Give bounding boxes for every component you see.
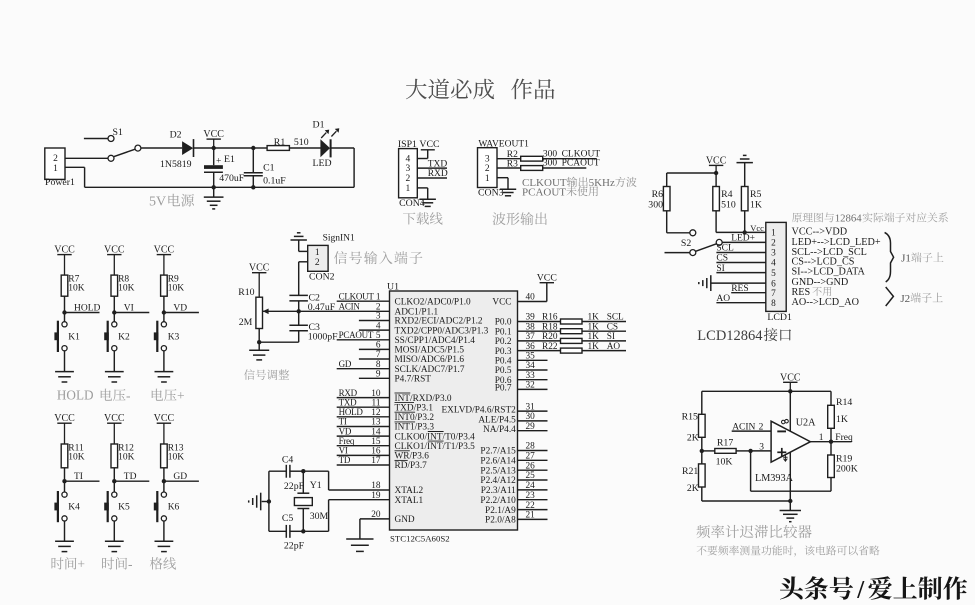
U1 pin 1 name CLKO2/ADC0/P1.0 bbox=[395, 297, 472, 307]
svg-text:5: 5 bbox=[376, 331, 381, 341]
U1 pin 3 name RXD2/ECI/ADC2/P1.2 bbox=[395, 317, 483, 327]
U1 pin 31 stub wire bbox=[518, 402, 548, 412]
ground K1 bbox=[55, 371, 74, 373]
U1 pin 37 wire to R20 bbox=[518, 332, 561, 342]
power VCC at LCD bbox=[706, 155, 727, 173]
net label TD at U1 pin 17 bbox=[339, 455, 351, 465]
svg-text:VCC: VCC bbox=[419, 139, 439, 150]
wire R9 to node VD bbox=[163, 296, 165, 312]
wire crystal left rail bbox=[268, 471, 270, 531]
svg-text:10K: 10K bbox=[68, 452, 85, 462]
junction op-amp plus input node bbox=[748, 449, 752, 453]
svg-text:SCL: SCL bbox=[716, 244, 734, 254]
U1 pin 35 name P0.4 bbox=[495, 357, 512, 367]
net label PCAOUT at U1 pin 5 bbox=[339, 330, 374, 340]
wire ISP1 pin1 to ground bbox=[417, 188, 427, 199]
resistor R11 10K bbox=[61, 443, 85, 468]
junction XTAL1 node bbox=[301, 529, 305, 533]
svg-text:23: 23 bbox=[526, 491, 536, 501]
U1 pin 24 name P2.3/A11 bbox=[481, 486, 516, 496]
svg-text:AO-->LCD_AO: AO-->LCD_AO bbox=[792, 297, 859, 308]
U1 pin 23 name P2.2/A10 bbox=[480, 496, 516, 506]
wire WAVEOUT1 pin1 to ground bbox=[497, 178, 508, 190]
svg-text:1: 1 bbox=[376, 292, 381, 302]
wire node to switch K4 bbox=[64, 481, 66, 492]
svg-text:CLKOUT: CLKOUT bbox=[339, 291, 375, 301]
svg-text:GD: GD bbox=[339, 359, 352, 369]
net label Freq at U1 pin 15 bbox=[339, 436, 355, 446]
svg-text:P2.6/A14: P2.6/A14 bbox=[480, 457, 516, 467]
label J1端子上 bbox=[901, 252, 943, 264]
U1 left pin 17 wire bbox=[337, 456, 390, 466]
svg-text:1000pF: 1000pF bbox=[308, 331, 338, 342]
U1 pin 4 name TXD2/CPP0/ADC3/P1.3 bbox=[395, 326, 489, 336]
ground K4 bbox=[55, 540, 74, 542]
resistor R5 1K bbox=[741, 187, 762, 211]
net label GD at U1 pin 8 bbox=[339, 359, 352, 369]
wire R2 to CLKOUT net bbox=[543, 149, 601, 159]
svg-text:TI: TI bbox=[339, 417, 347, 427]
wire S2 to LCD pin2 LED+ bbox=[722, 234, 766, 244]
junction R5 bottom bbox=[743, 230, 747, 234]
svg-text:4: 4 bbox=[771, 259, 776, 269]
power VCC at U1 pin40 bbox=[537, 273, 557, 284]
net label SCL to LCD pin3 bbox=[716, 244, 765, 254]
junction LCD VCC node bbox=[714, 171, 718, 175]
U1 pin 27 name P2.6/A14 bbox=[480, 457, 516, 467]
label 时间- bbox=[102, 557, 133, 572]
wire power bottom rail bbox=[85, 186, 355, 188]
svg-text:1K: 1K bbox=[588, 332, 600, 342]
svg-text:15: 15 bbox=[371, 437, 381, 447]
svg-text:MOSI/ADC5/P1.5: MOSI/ADC5/P1.5 bbox=[395, 346, 465, 356]
resistor R19 200K bbox=[828, 442, 858, 492]
svg-text:R22: R22 bbox=[542, 342, 558, 352]
op-amp U2A LM393A bbox=[755, 417, 816, 484]
U1 pin 36 wire to R22 bbox=[518, 342, 561, 352]
svg-text:2: 2 bbox=[53, 154, 58, 164]
svg-text:5KHz: 5KHz bbox=[589, 177, 615, 189]
power VCC at comparator bbox=[780, 372, 801, 391]
connector LCD1 bbox=[766, 222, 792, 323]
wire C1 node to R1 bbox=[253, 147, 267, 149]
U1 pin 17 name RD/P3.7 bbox=[395, 460, 428, 471]
svg-text:14: 14 bbox=[371, 427, 381, 437]
svg-text:XTAL1: XTAL1 bbox=[395, 496, 424, 506]
junction XTAL2 node bbox=[301, 469, 305, 473]
U1 pin 36 name P0.3 bbox=[495, 347, 512, 357]
svg-text:10K: 10K bbox=[716, 457, 733, 468]
net label TXD at U1 pin 11 bbox=[339, 397, 357, 407]
junction C1 top bbox=[251, 146, 255, 150]
brace J2 bbox=[886, 287, 894, 306]
svg-text:10K: 10K bbox=[118, 283, 135, 293]
note 原理图与12864实际端子对应关系 bbox=[792, 212, 948, 224]
U1 left pin 5 wire bbox=[337, 331, 390, 341]
node GD bbox=[162, 472, 199, 483]
net label HOLD at U1 pin 12 bbox=[339, 407, 364, 417]
wire op-amp power VCC segment bbox=[789, 391, 791, 431]
svg-text:30: 30 bbox=[526, 412, 536, 422]
wire SignIN1 pin2 down to C2 bbox=[299, 262, 308, 296]
net label AO to LCD pin8 bbox=[716, 294, 765, 304]
svg-text:1: 1 bbox=[819, 433, 824, 443]
svg-text:AO: AO bbox=[607, 342, 621, 352]
wire node to switch K2 bbox=[113, 313, 115, 322]
U1 pin 34 stub wire bbox=[518, 361, 548, 371]
svg-text:R17: R17 bbox=[717, 437, 733, 448]
svg-text:RXD2/ECI/ADC2/P1.2: RXD2/ECI/ADC2/P1.2 bbox=[395, 317, 483, 327]
svg-text:R10: R10 bbox=[238, 287, 254, 298]
wire top rail down to R15 bbox=[701, 391, 703, 414]
wire op-amp power GND segment bbox=[789, 452, 791, 501]
svg-text:RES: RES bbox=[731, 284, 748, 294]
svg-text:J1: J1 bbox=[901, 253, 911, 265]
wire K1 to ground bbox=[64, 351, 66, 372]
svg-text:200K: 200K bbox=[836, 463, 858, 474]
svg-text:11: 11 bbox=[372, 398, 381, 408]
pushbutton K2 bbox=[104, 321, 130, 352]
svg-text:CS: CS bbox=[716, 254, 728, 264]
svg-text:CS: CS bbox=[607, 322, 618, 332]
resistor R1 510 bbox=[267, 137, 309, 150]
ground comparator bbox=[780, 501, 801, 522]
svg-text:10K: 10K bbox=[118, 452, 135, 462]
U1 left pin 1 wire bbox=[337, 292, 390, 302]
U1 pin 40 name VCC bbox=[492, 298, 511, 308]
svg-text:2M: 2M bbox=[239, 317, 253, 328]
net label VD at U1 pin 14 bbox=[339, 426, 352, 436]
wire R11 to node TI bbox=[64, 468, 66, 481]
ground U1 pin20 bbox=[346, 538, 373, 540]
svg-text:Freq: Freq bbox=[835, 433, 853, 443]
svg-text:10: 10 bbox=[371, 389, 381, 399]
svg-text:2: 2 bbox=[759, 422, 764, 432]
svg-text:32: 32 bbox=[526, 381, 536, 391]
pushbutton K6 bbox=[154, 491, 180, 522]
ground signal conditioner bbox=[249, 342, 269, 360]
svg-text:P2.1/A9: P2.1/A9 bbox=[485, 506, 516, 516]
U1 pin 25 stub wire bbox=[518, 471, 548, 481]
svg-text:7: 7 bbox=[376, 350, 381, 360]
U1 pin 10 name INT/RXD/P3.0 bbox=[395, 393, 452, 404]
svg-text:VI: VI bbox=[124, 304, 134, 314]
label 信号输入端子 bbox=[334, 251, 422, 264]
U1 pin 39 name P0.0 bbox=[495, 318, 512, 328]
U1 left pin 7 wire bbox=[359, 350, 390, 360]
node VI bbox=[112, 304, 149, 315]
capacitor C2 0.47uF bbox=[289, 292, 335, 313]
svg-text:S2: S2 bbox=[681, 238, 691, 249]
svg-text:37: 37 bbox=[526, 332, 536, 342]
U1 pin 32 stub wire bbox=[518, 381, 548, 391]
resistor R9 10K bbox=[161, 274, 185, 296]
wire K3 to ground bbox=[163, 351, 165, 372]
svg-text:20: 20 bbox=[371, 510, 381, 520]
power VCC at ISP1 pin4 bbox=[419, 139, 439, 159]
svg-text:LM393A: LM393A bbox=[755, 473, 794, 484]
U1 left pin 14 wire bbox=[337, 427, 390, 437]
label 5V电源 bbox=[149, 194, 194, 210]
connector SignIN1 CON2 bbox=[308, 234, 355, 283]
svg-text:J2: J2 bbox=[900, 293, 910, 305]
svg-text:P2.0/A8: P2.0/A8 bbox=[485, 516, 516, 526]
svg-text:10K: 10K bbox=[168, 283, 185, 293]
svg-text:P0.5: P0.5 bbox=[495, 366, 512, 376]
U1 pin 28 name P2.7/A15 bbox=[480, 447, 516, 457]
svg-text:R18: R18 bbox=[542, 322, 558, 332]
node VD bbox=[162, 304, 199, 315]
label 波形输出 bbox=[493, 212, 547, 225]
svg-text:RXD: RXD bbox=[339, 388, 358, 398]
wire D2 cathode to VCC node bbox=[194, 147, 214, 149]
resistor R18 1K bbox=[542, 322, 582, 333]
ground SignIN1 (points up) bbox=[291, 233, 307, 252]
capacitor E1 470uF electrolytic bbox=[204, 148, 245, 187]
svg-text:U2A: U2A bbox=[796, 417, 816, 428]
svg-text:EXLVD/P4.6/RST2: EXLVD/P4.6/RST2 bbox=[441, 406, 516, 416]
svg-text:LED+: LED+ bbox=[731, 234, 755, 244]
IC U1 STC12C5A60S2 body bbox=[387, 282, 518, 544]
svg-text:10K: 10K bbox=[68, 283, 85, 293]
node TD bbox=[112, 472, 149, 483]
note CLKOUT输出5KHz方波 bbox=[522, 177, 637, 189]
svg-text:1K: 1K bbox=[588, 313, 600, 323]
resistor R7 10K bbox=[61, 274, 85, 296]
svg-text:NA/P4.4: NA/P4.4 bbox=[483, 425, 516, 435]
pushbutton K5 bbox=[104, 491, 130, 522]
label 时间+ bbox=[52, 557, 86, 572]
node TI bbox=[62, 472, 99, 483]
svg-text:R5: R5 bbox=[750, 189, 762, 200]
U1 pin 23 stub wire bbox=[518, 491, 548, 501]
power VCC at R11 bbox=[54, 413, 75, 444]
resistor R3 300 bbox=[507, 159, 543, 170]
net label RXD at U1 pin 10 bbox=[339, 388, 358, 398]
wire R3 to PCAOUT net bbox=[543, 159, 600, 169]
svg-text:P0.7: P0.7 bbox=[495, 383, 512, 393]
wire R16 to net SCL bbox=[582, 313, 626, 323]
power VCC at R8 bbox=[104, 245, 125, 276]
pin 2 number and name (wire drawn with ACIN line) bbox=[376, 303, 381, 313]
resistor R21 2K bbox=[682, 464, 705, 494]
brace J1 bbox=[885, 232, 894, 282]
svg-text:K6: K6 bbox=[168, 503, 180, 513]
svg-text:3: 3 bbox=[771, 249, 776, 259]
U1 pin 9 name P4.7/RST bbox=[395, 375, 432, 385]
svg-text:P4.7/RST: P4.7/RST bbox=[395, 375, 432, 385]
resistor R17 10K bbox=[702, 437, 751, 467]
svg-text:P2.5/A13: P2.5/A13 bbox=[480, 466, 516, 476]
junction ACIN node bbox=[297, 309, 301, 313]
svg-text:TD: TD bbox=[124, 472, 137, 482]
label 格线 bbox=[150, 557, 176, 569]
svg-text:PCAOUT: PCAOUT bbox=[339, 330, 374, 340]
svg-text:1K: 1K bbox=[588, 322, 600, 332]
U1 pin 18 name XTAL2 bbox=[395, 486, 424, 496]
svg-text:2: 2 bbox=[771, 239, 776, 249]
svg-text:2K: 2K bbox=[687, 433, 699, 444]
resistor R15 2K bbox=[682, 412, 706, 444]
svg-text:3: 3 bbox=[485, 155, 490, 165]
svg-text:SCLK/ADC7/P1.7: SCLK/ADC7/P1.7 bbox=[395, 365, 465, 375]
svg-text:27: 27 bbox=[526, 452, 536, 462]
wire U1 pin20 GND to ground bbox=[359, 519, 361, 539]
capacitor C3 1000pF bbox=[289, 311, 338, 342]
U1 pin 31 name EXLVD/P4.6/RST2 bbox=[441, 406, 516, 416]
pushbutton K4 bbox=[54, 491, 80, 522]
svg-text:LED: LED bbox=[313, 158, 332, 169]
svg-text:1N5819: 1N5819 bbox=[160, 159, 192, 170]
wire R6 to S2 contact bbox=[667, 211, 690, 233]
svg-text:2: 2 bbox=[406, 174, 411, 184]
capacitor C4 22pF bbox=[269, 455, 305, 492]
connector Power1 bbox=[45, 148, 75, 188]
U1 pin 21 name P2.0/A8 bbox=[485, 516, 516, 526]
svg-text:P2.4/A12: P2.4/A12 bbox=[480, 476, 516, 486]
svg-text:3: 3 bbox=[406, 164, 411, 174]
watermark 头条号/爱上制作 bbox=[780, 576, 967, 603]
svg-text:33: 33 bbox=[526, 371, 536, 381]
wire VCC node to R6 bbox=[667, 173, 716, 187]
wire R4 to LCD pin1 Vcc bbox=[716, 211, 766, 233]
svg-text:VD: VD bbox=[173, 304, 187, 314]
wire K5 to ground bbox=[113, 521, 115, 541]
U1 pin 29 stub wire bbox=[518, 422, 548, 432]
label J2端子上 bbox=[900, 293, 942, 305]
U1 left pin 9 wire bbox=[359, 370, 390, 380]
svg-text:2: 2 bbox=[315, 258, 320, 268]
wire R8 to node VI bbox=[113, 296, 115, 312]
wire node to switch K3 bbox=[163, 313, 165, 322]
wire R13 to node GD bbox=[163, 468, 165, 481]
svg-text:P2.3/A11: P2.3/A11 bbox=[481, 486, 516, 496]
svg-text:1: 1 bbox=[53, 164, 58, 174]
svg-text:6: 6 bbox=[376, 341, 381, 351]
net label ACIN at U1 pin 2 bbox=[339, 302, 361, 312]
wire R20 to net SI bbox=[582, 332, 626, 342]
ground crystal (points left) bbox=[249, 493, 269, 511]
resistor R8 10K bbox=[111, 274, 135, 296]
wire node to switch K1 bbox=[64, 313, 66, 322]
U1 pin 34 name P0.5 bbox=[495, 366, 512, 376]
wire op-amp plus input bbox=[751, 450, 772, 452]
svg-text:6: 6 bbox=[771, 279, 776, 289]
svg-text:25: 25 bbox=[526, 471, 536, 481]
U1 pin 20 name GND bbox=[395, 515, 415, 525]
wire XTAL2 node to U1 pin18 bbox=[303, 471, 328, 490]
note 不要频率测量功能时该电路可以省略 bbox=[697, 545, 880, 556]
U1 left pin 16 wire bbox=[337, 447, 390, 457]
svg-text:E1: E1 bbox=[224, 154, 235, 165]
wire S1 to D2 anode bbox=[141, 147, 182, 149]
connector WAVEOUT1 CON3 bbox=[478, 139, 530, 198]
svg-text:R4: R4 bbox=[721, 189, 733, 200]
svg-text:K1: K1 bbox=[68, 332, 80, 342]
pushbutton K3 bbox=[154, 321, 180, 352]
ground WAVEOUT1 bbox=[500, 188, 516, 190]
wire Power1 pin2 to S1 bbox=[65, 157, 108, 159]
wire R10 bottom to ground node bbox=[258, 329, 260, 343]
svg-text:K5: K5 bbox=[118, 503, 130, 513]
svg-text:K3: K3 bbox=[168, 332, 180, 342]
svg-text:9: 9 bbox=[376, 370, 381, 380]
svg-text:P0.2: P0.2 bbox=[495, 337, 512, 347]
resistor R4 510 bbox=[713, 173, 736, 211]
svg-text:ACIN: ACIN bbox=[339, 302, 361, 312]
wire ISP1 pin3 TXD bbox=[417, 159, 447, 169]
U1 pin 13 name INT1/P3.3 bbox=[395, 422, 435, 433]
svg-text:10K: 10K bbox=[168, 452, 185, 462]
net label ACIN to op-amp pin2 bbox=[732, 422, 771, 432]
label LCD12864接口 bbox=[697, 328, 791, 344]
svg-text:510: 510 bbox=[294, 137, 309, 148]
U1 pin 39 wire to R16 bbox=[518, 313, 561, 323]
junction C1 bottom bbox=[251, 185, 255, 189]
svg-text:CLKO2/ADC0/P1.0: CLKO2/ADC0/P1.0 bbox=[395, 297, 472, 307]
svg-text:+: + bbox=[177, 388, 185, 403]
wire K6 to ground bbox=[163, 521, 165, 541]
wire R18 to net CS bbox=[582, 322, 626, 332]
power VCC at R13 bbox=[154, 413, 175, 444]
ground ISP1 bbox=[419, 198, 436, 200]
svg-text:300: 300 bbox=[648, 200, 663, 211]
wire node to switch K5 bbox=[113, 481, 115, 492]
U1 pin 19 name XTAL1 bbox=[395, 496, 424, 506]
svg-text:VI: VI bbox=[339, 446, 348, 456]
svg-text:P0.4: P0.4 bbox=[495, 357, 512, 367]
svg-text:24: 24 bbox=[526, 481, 536, 491]
U1 pin 35 stub wire bbox=[518, 352, 548, 362]
svg-text:GND: GND bbox=[395, 515, 415, 525]
resistor R14 1K bbox=[828, 391, 853, 441]
U1 pin 15 name CLKO1/INT/T1/P3.5 bbox=[395, 441, 476, 452]
wire R12 to node TD bbox=[113, 468, 115, 481]
svg-text:P0.1: P0.1 bbox=[495, 327, 512, 337]
U1 pin 5 name SS/CPP1/ADC4/P1.4 bbox=[395, 336, 476, 346]
resistor R12 10K bbox=[111, 443, 135, 468]
svg-text:K4: K4 bbox=[68, 503, 80, 513]
svg-text:P2.2/A10: P2.2/A10 bbox=[480, 496, 516, 506]
U1 left pin 4 wire bbox=[359, 321, 390, 331]
U1 pin 14 name CLKO0/INT/T0/P3.4 bbox=[395, 432, 476, 443]
svg-text:26: 26 bbox=[526, 461, 536, 471]
svg-text:22: 22 bbox=[526, 501, 536, 511]
wire comparator top rail bbox=[702, 390, 831, 392]
junction R10 bottom bbox=[257, 340, 261, 344]
svg-text:22pF: 22pF bbox=[284, 481, 305, 492]
U1 pin 33 stub wire bbox=[518, 371, 548, 381]
junction E1 bottom bbox=[212, 185, 216, 189]
wire WAVEOUT1 pin2 to R3 bbox=[497, 167, 521, 169]
svg-text:12: 12 bbox=[371, 408, 381, 418]
svg-text:R21: R21 bbox=[682, 466, 698, 477]
U1 left pin 15 wire bbox=[337, 437, 390, 447]
U1 pin 28 stub wire bbox=[518, 442, 548, 452]
label 信号调整 bbox=[244, 369, 289, 380]
svg-text:18: 18 bbox=[371, 481, 381, 491]
U1 pin 6 name MOSI/ADC5/P1.5 bbox=[395, 346, 465, 356]
U1 left pin 3 wire bbox=[359, 312, 390, 322]
svg-text:40: 40 bbox=[526, 293, 536, 303]
node HOLD bbox=[62, 304, 100, 315]
power VCC at R9 bbox=[154, 245, 175, 276]
svg-text:P0.0: P0.0 bbox=[495, 318, 512, 328]
svg-text:8: 8 bbox=[376, 360, 381, 370]
svg-text:Power1: Power1 bbox=[45, 177, 75, 188]
U1 left pin 12 wire bbox=[337, 408, 390, 418]
svg-text:17: 17 bbox=[371, 456, 381, 466]
